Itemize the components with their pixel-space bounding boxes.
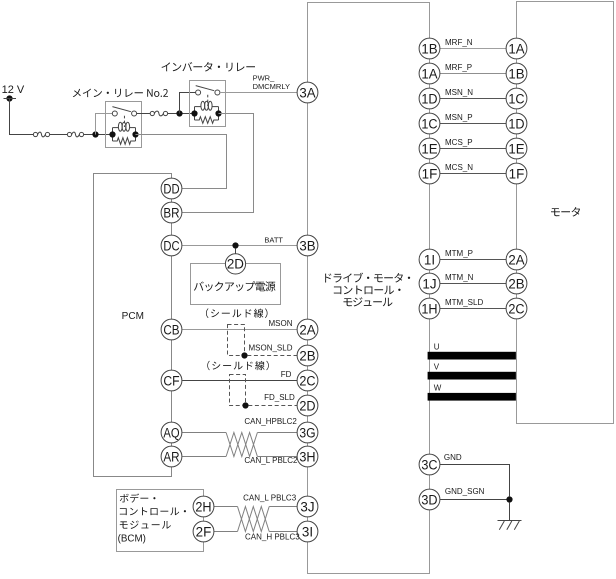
wire BATT DC to 3B xyxy=(182,245,297,247)
svg-text:1E: 1E xyxy=(421,141,437,156)
DMCM pin 3J xyxy=(297,496,318,517)
svg-text:2B: 2B xyxy=(508,276,524,291)
wire GND 3C to ground node xyxy=(440,465,510,497)
BCM pin 2F xyxy=(193,521,214,542)
PCM pin CF xyxy=(161,370,182,391)
svg-text:1C: 1C xyxy=(421,116,438,131)
DMCM pin 1A (motor side) xyxy=(419,63,440,84)
svg-text:(BCM): (BCM) xyxy=(118,534,146,545)
DMCM pin 3C (motor side) xyxy=(419,454,440,475)
svg-text:CAN_L PBLC3: CAN_L PBLC3 xyxy=(243,494,297,503)
svg-text:AQ: AQ xyxy=(163,425,179,440)
drive motor control module box U1 xyxy=(308,3,430,574)
wire CAN_HPBLC2 AQ to twist xyxy=(182,432,226,434)
svg-text:2B: 2B xyxy=(299,348,315,363)
motor phase cable U xyxy=(428,352,516,360)
svg-text:CF: CF xyxy=(163,373,179,388)
svg-text:2H: 2H xyxy=(195,499,211,514)
svg-text:AR: AR xyxy=(163,449,179,464)
PCM pin CB xyxy=(161,319,182,340)
DMCM pin 1D (motor side) xyxy=(419,88,440,109)
svg-text:CAN_L PBLC2: CAN_L PBLC2 xyxy=(244,456,298,465)
wire twist to 3I xyxy=(269,531,297,533)
DMCM pin 1J (motor side) xyxy=(419,273,440,294)
wire MRF_N xyxy=(440,48,507,50)
label BCM line 3 (Japanese) xyxy=(120,521,171,529)
svg-text:3G: 3G xyxy=(299,425,315,440)
wire node A up to main relay contact xyxy=(96,114,113,135)
wire F2 to main relay coil xyxy=(84,134,113,136)
svg-text:1F: 1F xyxy=(509,166,525,181)
svg-text:DD: DD xyxy=(163,181,179,196)
label backup power supply (Japanese) xyxy=(194,281,276,291)
svg-text:FD_SLD: FD_SLD xyxy=(264,393,295,402)
PCM pin BR xyxy=(161,202,182,223)
wire MSN_P xyxy=(440,123,507,125)
svg-text:PCM: PCM xyxy=(122,311,144,322)
DMCM pin 3G xyxy=(297,422,318,443)
DMCM pin 3D (motor side) xyxy=(419,489,440,510)
svg-text:1H: 1H xyxy=(421,301,437,316)
wire BATT tap down to 2D backup xyxy=(235,248,237,254)
fusible link F2 xyxy=(67,132,83,137)
DMCM pin 3H xyxy=(297,446,318,467)
DMCM pin 1H (motor side) xyxy=(419,298,440,319)
label main relay No.2 (Japanese) xyxy=(73,89,168,98)
12V terminal tick xyxy=(4,98,17,100)
svg-text:2A: 2A xyxy=(508,252,524,267)
svg-text:1E: 1E xyxy=(508,141,524,156)
wire CAN_L PBLC2 AR to twist xyxy=(182,456,226,458)
PCM box xyxy=(94,174,172,477)
junction node BATT tap xyxy=(232,242,238,248)
motor phase cable V xyxy=(428,372,516,380)
label inverter relay (Japanese) xyxy=(162,62,256,72)
main relay K1 armature link (dashed) xyxy=(123,116,125,127)
DMCM pin 1E (motor side) xyxy=(419,138,440,159)
svg-text:GND_SGN: GND_SGN xyxy=(445,487,485,496)
DMCM pin 1C (motor side) xyxy=(419,113,440,134)
svg-text:DMCMRLY: DMCMRLY xyxy=(253,82,290,91)
svg-text:3A: 3A xyxy=(299,85,315,100)
svg-text:MTM_SLD: MTM_SLD xyxy=(445,298,483,307)
label BCM line 2 (Japanese) xyxy=(120,507,186,515)
DMCM pin 2B xyxy=(297,345,318,366)
svg-text:12 V: 12 V xyxy=(2,84,25,96)
twisted pair CAN PCM-DMCM xyxy=(226,433,257,457)
svg-text:MRF_P: MRF_P xyxy=(445,63,472,72)
wire GND_SGN 3D to ground node xyxy=(440,499,507,501)
PCM pin DD xyxy=(161,178,182,199)
svg-text:CAN_HPBLC2: CAN_HPBLC2 xyxy=(244,417,297,426)
wire FD CF to 2C xyxy=(182,380,297,382)
inverter relay K2 armature link (dashed) xyxy=(207,95,209,106)
svg-text:1D: 1D xyxy=(421,91,438,106)
shield drain node MSON_SLD xyxy=(241,352,247,358)
motor pin 1C xyxy=(506,88,527,109)
PCM pin AR xyxy=(161,446,182,467)
shield drain node FD_SLD xyxy=(242,402,248,408)
svg-text:V: V xyxy=(434,362,440,371)
wire CAN_H PBLC3 2F to twist xyxy=(214,531,238,533)
relay box inverter relay K2 xyxy=(190,81,226,127)
motor pin 1D xyxy=(506,113,527,134)
svg-text:1J: 1J xyxy=(422,276,436,291)
svg-text:MRF_N: MRF_N xyxy=(445,38,473,47)
motor pin 2A xyxy=(506,249,527,270)
wire MCS_P xyxy=(440,148,507,150)
wire CAN_L PBLC3 2H to twist xyxy=(214,506,238,508)
svg-text:1B: 1B xyxy=(421,41,437,56)
BCM pin 2H xyxy=(193,496,214,517)
shield box around FD wire xyxy=(230,375,246,406)
svg-text:DC: DC xyxy=(163,238,179,253)
shield box around MSON wire xyxy=(228,325,245,356)
svg-text:3D: 3D xyxy=(421,492,438,507)
backup power supply box xyxy=(191,264,281,305)
DMCM pin 1I (motor side) xyxy=(419,249,440,270)
svg-text:2A: 2A xyxy=(299,322,315,337)
wire down to chassis ground xyxy=(509,502,511,520)
svg-text:2F: 2F xyxy=(196,524,212,539)
DMCM pin 2D xyxy=(297,395,318,416)
wire MSON_SLD shield to 2B (dashed) xyxy=(247,355,297,357)
wire MSN_N xyxy=(440,98,507,100)
svg-text:MCS_N: MCS_N xyxy=(445,163,473,172)
junction node A xyxy=(92,131,98,137)
svg-text:U: U xyxy=(434,342,440,351)
svg-text:GND: GND xyxy=(444,453,462,462)
inverter relay K2 switch contacts xyxy=(196,86,220,95)
wire MCS_N xyxy=(440,173,507,175)
DMCM pin 2A xyxy=(297,319,318,340)
svg-text:MSON_SLD: MSON_SLD xyxy=(248,344,292,353)
motor pin 2C xyxy=(506,298,527,319)
wire MRF_P xyxy=(440,73,507,75)
wire twist to 3J xyxy=(269,506,297,508)
motor pin 1E xyxy=(506,138,527,159)
label BCM line 1 (Japanese) xyxy=(120,494,156,503)
label drive motor control module line 1 (Japanese) xyxy=(325,273,410,283)
PCM pin DC xyxy=(161,235,182,256)
relay box main relay K1 xyxy=(106,102,142,148)
wire MTM_N xyxy=(440,283,507,285)
motor pin 1A xyxy=(506,38,527,59)
svg-text:BR: BR xyxy=(163,205,179,220)
svg-text:2C: 2C xyxy=(508,301,525,316)
svg-text:BATT: BATT xyxy=(264,235,283,244)
svg-text:MTM_N: MTM_N xyxy=(445,273,474,282)
wire main relay coil to DD xyxy=(136,135,227,189)
motor pin 1B xyxy=(506,63,527,84)
svg-text:3C: 3C xyxy=(421,457,438,472)
DMCM pin 3I xyxy=(297,521,318,542)
label drive motor control module line 3 (Japanese) xyxy=(344,297,393,306)
wire FD_SLD shield to 2D (dashed) xyxy=(248,405,297,407)
svg-text:1F: 1F xyxy=(422,166,438,181)
wire twist to 3G xyxy=(257,432,297,434)
svg-text:1I: 1I xyxy=(424,252,435,267)
svg-text:1B: 1B xyxy=(508,66,524,81)
label motor (Japanese) xyxy=(551,207,580,217)
svg-text:1C: 1C xyxy=(508,91,525,106)
wire PWR_DMCMRLY inverter contact to 3A xyxy=(220,92,297,94)
svg-text:MSON: MSON xyxy=(269,319,293,328)
chassis ground symbol xyxy=(498,521,522,530)
DMCM pin 1F (motor side) xyxy=(419,163,440,184)
wire inverter relay coil to BR xyxy=(182,114,253,213)
label shield wire 1 (Japanese) xyxy=(206,308,268,318)
svg-text:1D: 1D xyxy=(508,116,525,131)
12V battery terminal node xyxy=(6,95,12,101)
wire 12V down to fuse F1 xyxy=(10,99,34,135)
svg-text:2D: 2D xyxy=(299,398,316,413)
svg-text:CB: CB xyxy=(163,322,179,337)
wire MTM_P xyxy=(440,259,507,261)
svg-text:3H: 3H xyxy=(299,449,315,464)
main relay K1 coil and resistor xyxy=(109,122,138,144)
motor phase cable W xyxy=(428,393,516,401)
wire F1 to F2 xyxy=(50,134,68,136)
DMCM pin 2C xyxy=(297,370,318,391)
motor box M1 xyxy=(517,2,614,424)
svg-text:W: W xyxy=(434,384,442,393)
wire MSON CB to 2A xyxy=(182,329,297,331)
DMCM pin 3A xyxy=(297,82,318,103)
motor pin 1F xyxy=(506,163,527,184)
svg-text:3B: 3B xyxy=(299,238,315,253)
svg-text:MTM_P: MTM_P xyxy=(445,249,473,258)
wire F3 to node B / inverter relay coil xyxy=(168,113,192,115)
fusible link F1 xyxy=(33,132,49,137)
svg-text:3I: 3I xyxy=(302,524,313,539)
main relay K1 switch contacts xyxy=(112,107,136,116)
ground junction node xyxy=(506,496,512,502)
wire main relay contact out to fuse F3 xyxy=(137,113,151,115)
backup power pin 2D xyxy=(225,254,245,274)
label drive motor control module line 2 (Japanese) xyxy=(334,286,401,295)
svg-text:2D: 2D xyxy=(227,257,244,272)
svg-text:MSN_N: MSN_N xyxy=(445,88,473,97)
wire node B up to inverter relay contact xyxy=(180,93,196,114)
label shield wire 2 (Japanese) xyxy=(207,361,268,371)
svg-text:MCS_P: MCS_P xyxy=(445,138,473,147)
svg-text:CAN_H PBLC3: CAN_H PBLC3 xyxy=(245,533,300,542)
PCM pin AQ xyxy=(161,422,182,443)
svg-text:MSN_P: MSN_P xyxy=(445,113,473,122)
svg-text:1A: 1A xyxy=(421,66,437,81)
wire twist to 3H xyxy=(257,456,297,458)
wire MTM_SLD xyxy=(440,308,507,310)
twisted pair CAN BCM-DMCM xyxy=(238,507,270,532)
BCM box xyxy=(117,490,204,552)
fusible link F3 xyxy=(150,111,167,116)
motor pin 2B xyxy=(506,273,527,294)
svg-text:FD: FD xyxy=(281,370,292,379)
DMCM pin 1B (motor side) xyxy=(419,38,440,59)
DMCM pin 3B xyxy=(297,235,318,256)
svg-text:3J: 3J xyxy=(300,499,314,514)
inverter relay K2 coil and resistor xyxy=(191,101,221,123)
junction node B xyxy=(176,110,182,116)
svg-text:2C: 2C xyxy=(299,373,316,388)
svg-text:1A: 1A xyxy=(508,41,524,56)
